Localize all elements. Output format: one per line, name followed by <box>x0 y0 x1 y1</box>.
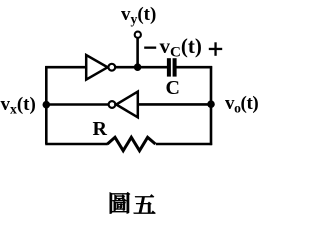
node vy junction dot <box>134 63 142 71</box>
capacitor C left plate <box>167 58 171 76</box>
wire: U1 bubble to node vy junction <box>115 66 137 69</box>
label minus sign of vC <box>144 47 156 49</box>
wire: U2 input to right bus <box>138 103 211 106</box>
op-amp U1: inverter triangle pointing right <box>86 55 107 80</box>
label vx(t) <box>1 94 36 118</box>
label vo(t) <box>225 93 258 117</box>
wire: bottom rail from left bus to resistor R <box>45 143 108 146</box>
label vC(t) <box>160 34 202 62</box>
node vx junction dot <box>43 101 51 109</box>
node vy open terminal <box>135 32 141 38</box>
wire: vertical stub up to vy terminal <box>136 38 139 67</box>
op-amp U2: inverter triangle pointing left <box>116 92 138 118</box>
wire: capacitor right plate to right bus <box>176 66 212 69</box>
wire: left bus vertical <box>45 66 48 144</box>
op-amp U2 output bubble (points left) <box>109 101 116 108</box>
wire: top rail from left bus to inverter U1 input <box>45 66 86 69</box>
caption glyph: CJK character for five (wu) <box>134 195 156 214</box>
label C <box>166 77 180 100</box>
wire: resistor R to right bus <box>156 143 212 146</box>
caption glyph: CJK character for Figure (tu) <box>110 192 130 213</box>
resistor R zigzag <box>107 137 155 150</box>
label vy(t) <box>121 4 156 28</box>
wire: right bus vertical <box>210 66 213 145</box>
label R <box>93 118 107 141</box>
wire: node vy junction to capacitor left plate <box>138 66 168 69</box>
capacitor C right plate <box>173 58 177 76</box>
wire: middle rail from left bus node to inverter U2 output bubble <box>45 103 108 106</box>
node vo junction dot <box>207 100 215 108</box>
label plus sign of vC <box>209 48 222 50</box>
op-amp U1 output bubble <box>108 64 115 71</box>
